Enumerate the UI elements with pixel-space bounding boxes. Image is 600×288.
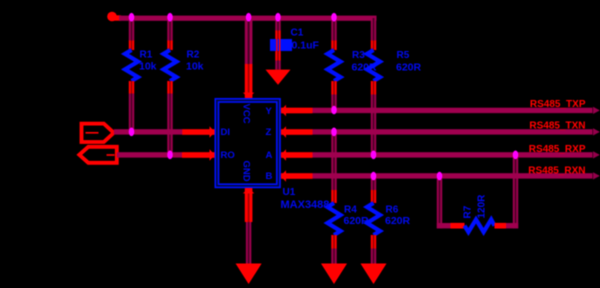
- pin stub R7 right: [495, 223, 507, 229]
- pin stub C1 top: [275, 31, 280, 40]
- svg-text:R3: R3: [352, 50, 365, 61]
- junction on rail at C1: [275, 13, 281, 22]
- junction R3/TXP: [331, 106, 337, 115]
- pin stub R1 top: [129, 41, 134, 51]
- svg-text:R5: R5: [397, 50, 410, 61]
- svg-text:120R: 120R: [477, 194, 488, 219]
- svg-text:10k: 10k: [186, 61, 204, 73]
- pin U1 Z (right): [281, 126, 313, 137]
- resistor R2: [164, 50, 177, 81]
- junction on rail at R2: [167, 13, 173, 22]
- svg-text:VCC: VCC: [241, 104, 252, 124]
- wire: top VCC rail: [119, 16, 377, 21]
- ground under R6: [361, 264, 387, 285]
- wire: R2 column upper: [167, 20, 172, 41]
- svg-text:MAX3488: MAX3488: [281, 199, 330, 211]
- ground under C1: [266, 70, 291, 85]
- port RO (output arrow): [79, 147, 117, 163]
- svg-text:620R: 620R: [385, 215, 411, 227]
- wire: termination left leg: [437, 176, 442, 228]
- svg-text:0.1uF: 0.1uF: [292, 40, 320, 52]
- svg-text:10k: 10k: [139, 61, 157, 73]
- svg-text:R7: R7: [463, 205, 474, 218]
- wire: net RS485_RXN: [313, 172, 600, 179]
- wire: net RS485_TXP: [313, 107, 600, 114]
- pin U1 DI (left): [182, 126, 215, 137]
- resistor R4: [328, 203, 341, 235]
- pin stub R5 top: [371, 41, 376, 51]
- svg-text:620R: 620R: [344, 215, 370, 227]
- wire: R4 column from TXN: [331, 132, 336, 190]
- pin stub R6 bottom: [371, 235, 376, 249]
- pin stub R1 bottom: [129, 81, 134, 94]
- svg-text:R1: R1: [140, 50, 153, 61]
- ground under R4: [321, 264, 347, 285]
- wire: C1 column upper: [275, 20, 280, 31]
- svg-text:RS485_RXP: RS485_RXP: [529, 144, 586, 155]
- wire: R1 column upper: [129, 20, 134, 41]
- wire: R5 to RXP net: [371, 95, 376, 156]
- port DI (input arrow): [82, 124, 114, 142]
- svg-text:U1: U1: [283, 187, 296, 198]
- wire: R3 column upper: [331, 20, 336, 41]
- svg-text:620R: 620R: [396, 62, 422, 74]
- capacitor C1: [270, 39, 292, 51]
- junction R6/RXN: [371, 172, 377, 181]
- junction R4/TXN: [331, 128, 337, 137]
- resistor R5: [367, 50, 380, 81]
- ground under U1: [236, 264, 262, 285]
- wire: R4 to ground: [331, 249, 336, 264]
- junction on rail at R3: [331, 13, 337, 22]
- pin stub R7 left: [451, 223, 465, 229]
- pin stub R2 top: [167, 41, 172, 51]
- wire: port RO to U1: [117, 152, 182, 157]
- resistor R7: [465, 220, 495, 233]
- wire: termination bottom right: [506, 223, 518, 228]
- pin stub C1 bottom: [275, 51, 280, 61]
- pin U1 A (right): [281, 149, 313, 160]
- wire: R1 column lower: [129, 94, 134, 133]
- junction on rail at R1: [129, 13, 135, 22]
- junction R2/RO: [167, 151, 173, 160]
- pin stub R4 bottom: [331, 235, 336, 249]
- pin U1 VCC: [243, 64, 254, 98]
- svg-text:Z: Z: [266, 127, 272, 138]
- svg-text:DI: DI: [221, 127, 231, 138]
- pin U1 GND (bottom): [243, 188, 254, 222]
- svg-text:RS485_TXN: RS485_TXN: [529, 121, 585, 132]
- pin stub R2 bottom: [167, 81, 172, 94]
- pin U1 Y (right): [281, 105, 313, 116]
- svg-text:GND: GND: [241, 161, 252, 182]
- IC U1 box: [217, 100, 279, 185]
- power symbol (VCC dot): [107, 12, 121, 22]
- resistor R6: [367, 203, 380, 235]
- svg-text:Y: Y: [266, 106, 273, 117]
- junction on rail at U1 VCC: [246, 13, 252, 22]
- wire: U1 VCC column: [245, 20, 253, 65]
- pin stub R3 top: [331, 41, 336, 51]
- wire: R2 column lower: [167, 94, 172, 156]
- wire: termination bottom left: [437, 223, 451, 228]
- svg-text:R4: R4: [344, 205, 357, 216]
- svg-text:B: B: [266, 171, 273, 182]
- resistor R1: [125, 50, 138, 81]
- junction R5/RXP: [371, 151, 377, 160]
- wire: R6 column from RXN: [371, 176, 376, 190]
- svg-text:RS485_TXP: RS485_TXP: [530, 99, 586, 110]
- pin stub R3 bottom: [331, 81, 336, 95]
- junction R1/DI: [129, 128, 135, 137]
- junction termination/RXP: [513, 151, 519, 160]
- resistor R3: [328, 50, 341, 81]
- wire: net RS485_TXN: [313, 128, 600, 135]
- wire: R6 to ground: [371, 249, 376, 264]
- wire: termination right leg: [513, 155, 518, 229]
- pin stub R6 top: [371, 190, 376, 203]
- wire: port DI to U1: [114, 129, 183, 134]
- svg-text:A: A: [266, 150, 273, 161]
- wire: R5 column upper (rail corner): [371, 18, 376, 41]
- pin U1 RO (left): [182, 149, 215, 160]
- wire: U1 GND to ground: [246, 222, 251, 264]
- pin stub R4 top: [331, 190, 336, 203]
- svg-text:C1: C1: [291, 28, 304, 39]
- junction termination/RXN: [437, 172, 443, 181]
- wire: net RS485_RXP: [313, 151, 600, 158]
- svg-text:R6: R6: [386, 205, 399, 216]
- wire: C1 to ground: [275, 61, 280, 70]
- pin U1 B (right): [281, 170, 313, 181]
- svg-text:RS485_RXN: RS485_RXN: [528, 166, 585, 177]
- svg-text:RO: RO: [221, 150, 235, 161]
- svg-text:R2: R2: [187, 50, 200, 61]
- wire: R3 to TXP net: [331, 95, 336, 111]
- pin stub R5 bottom: [371, 81, 376, 95]
